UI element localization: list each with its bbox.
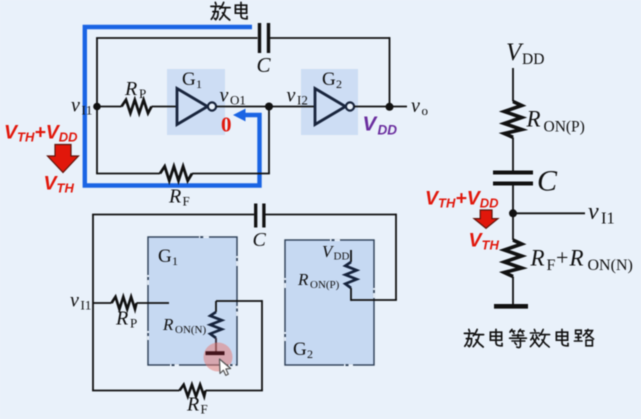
svg-text:v: v bbox=[411, 95, 420, 117]
inverter G2 bubble bbox=[346, 102, 354, 110]
inverter G1 bubble bbox=[208, 102, 216, 110]
node v_I1 right dot bbox=[509, 209, 517, 217]
capacitor C (bottom) bbox=[254, 204, 257, 228]
svg-text:C: C bbox=[257, 53, 272, 77]
wire v_I1 to RP bbox=[97, 106, 122, 108]
wire to ground right bbox=[512, 277, 514, 305]
svg-text:R: R bbox=[186, 394, 199, 416]
red arrow right bbox=[474, 210, 498, 228]
svg-text:+: + bbox=[556, 245, 568, 270]
wire G2 output to v_o bbox=[354, 106, 407, 108]
wire v_O1 to G2 input bbox=[216, 106, 315, 108]
svg-text:2: 2 bbox=[307, 347, 313, 361]
wire V_DD down bbox=[512, 68, 514, 102]
svg-text:ON(P): ON(P) bbox=[544, 119, 585, 136]
svg-text:C: C bbox=[537, 165, 558, 198]
resistor RP (bottom) bbox=[112, 297, 137, 309]
wire RP into G1 box bbox=[137, 302, 170, 304]
selection dash marks G1 box bbox=[147, 236, 238, 366]
svg-text:R: R bbox=[115, 308, 128, 330]
resistor R_F+R_ON(N) right bbox=[504, 240, 521, 277]
svg-text:v: v bbox=[287, 85, 296, 107]
wire right down to RF (bottom) bbox=[261, 300, 263, 390]
resistor RP bbox=[122, 100, 152, 113]
svg-text:v: v bbox=[70, 290, 79, 312]
wire R_ON(N) stub bbox=[215, 301, 217, 312]
node v_o dot bbox=[386, 103, 394, 111]
mouse cursor bbox=[220, 359, 231, 375]
wire RF right (bottom) bbox=[206, 390, 263, 392]
wire RF left (bottom) bbox=[92, 390, 179, 392]
svg-text:P: P bbox=[130, 316, 137, 331]
wire to ground bbox=[215, 338, 217, 352]
svg-text:DD: DD bbox=[378, 123, 398, 138]
node v_I1 dot bbox=[93, 103, 101, 111]
wire V_DD stub bbox=[350, 250, 352, 262]
wire capacitor to node bbox=[512, 186, 514, 241]
svg-text:R: R bbox=[297, 270, 309, 289]
svg-text:R: R bbox=[124, 78, 137, 100]
svg-text:G: G bbox=[293, 339, 307, 360]
svg-text:F: F bbox=[547, 257, 556, 274]
wire RP to G1 bbox=[152, 106, 178, 108]
svg-text:1: 1 bbox=[196, 77, 202, 91]
wire R_ON(N) top horizontal bbox=[216, 300, 262, 302]
svg-text:F: F bbox=[183, 194, 190, 209]
capacitor C (top) bbox=[258, 23, 261, 53]
resistor R_ON(P) bottom box bbox=[345, 262, 356, 288]
resistor R_ON(N) bbox=[210, 312, 222, 338]
svg-text:1: 1 bbox=[172, 254, 178, 268]
svg-text:ON(P): ON(P) bbox=[310, 279, 340, 291]
blue discharge current path bbox=[85, 27, 260, 186]
svg-text:R: R bbox=[530, 246, 545, 271]
inverter G2 triangle bbox=[315, 89, 346, 125]
svg-text:2: 2 bbox=[336, 77, 342, 91]
blue arrowhead bbox=[233, 109, 246, 122]
svg-text:R: R bbox=[569, 246, 584, 271]
svg-text:P: P bbox=[139, 86, 146, 101]
svg-text:C: C bbox=[253, 229, 267, 251]
svg-text:I2: I2 bbox=[297, 93, 308, 108]
svg-text:V: V bbox=[363, 113, 379, 136]
svg-text:R: R bbox=[168, 186, 181, 208]
wire v_O1 down to RF bbox=[268, 107, 270, 174]
svg-text:G: G bbox=[322, 69, 336, 90]
wire v_I1 vertical bbox=[96, 38, 98, 174]
svg-text:I1: I1 bbox=[82, 103, 93, 118]
resistor RF (bottom) bbox=[180, 385, 206, 397]
wire down to v_o node bbox=[389, 37, 391, 107]
svg-text:ON(N): ON(N) bbox=[175, 324, 206, 336]
red arrow left bbox=[48, 145, 79, 173]
wire capacitor to right vertical bbox=[266, 214, 397, 216]
svg-text:I1: I1 bbox=[601, 209, 615, 228]
resistor R_ON(P) right bbox=[504, 102, 521, 138]
svg-text:v: v bbox=[220, 85, 229, 107]
svg-text:R: R bbox=[162, 315, 174, 334]
gate G1 box (bottom) bbox=[148, 237, 237, 365]
wire R_ON(P) to node bbox=[350, 288, 352, 301]
svg-text:o: o bbox=[422, 103, 429, 118]
label fangdian (discharge) bbox=[211, 2, 230, 20]
svg-text:ON(N): ON(N) bbox=[588, 257, 633, 274]
label fangdian dengxiao dianlu (discharge equivalent circuit) bbox=[464, 329, 483, 347]
svg-text:0: 0 bbox=[221, 113, 232, 137]
svg-text:DD: DD bbox=[334, 251, 350, 263]
svg-text:O1: O1 bbox=[230, 93, 246, 108]
svg-text:v: v bbox=[71, 95, 80, 117]
svg-text:DD: DD bbox=[522, 51, 544, 68]
gate G2 box (top) bbox=[301, 69, 358, 135]
wire node to v_I1 label bbox=[513, 212, 585, 214]
node v_O1 dot bbox=[265, 103, 273, 111]
resistor RF bbox=[160, 166, 192, 180]
svg-text:v: v bbox=[588, 199, 599, 225]
wire right vertical down bbox=[395, 214, 397, 300]
wire to capacitor bbox=[512, 137, 514, 170]
ground right bbox=[494, 304, 528, 309]
pink cursor highlight bbox=[204, 343, 233, 372]
wire capacitor to v_o branch bbox=[270, 37, 390, 39]
ground (bottom circuit) bbox=[206, 351, 225, 355]
svg-text:G: G bbox=[182, 69, 196, 90]
wire RF left segment bbox=[96, 173, 160, 175]
svg-text:G: G bbox=[158, 246, 172, 267]
svg-text:I1: I1 bbox=[81, 298, 92, 313]
wire to R_ON(P) bottom bbox=[351, 299, 397, 301]
gate G2 box (bottom) bbox=[285, 240, 374, 365]
wire RF right segment bbox=[192, 173, 270, 175]
svg-text:F: F bbox=[201, 402, 208, 417]
svg-text:R: R bbox=[526, 107, 541, 132]
inverter G1 triangle bbox=[177, 89, 208, 125]
capacitor C right bbox=[493, 171, 533, 175]
wire v_I1 to RP (bottom) bbox=[93, 302, 112, 304]
wire top to capacitor (bottom) bbox=[92, 214, 254, 216]
selection dash marks G2 box bbox=[284, 239, 375, 366]
gate G1 box (top) bbox=[167, 69, 225, 135]
wire left vertical (bottom v_I1) bbox=[92, 215, 94, 391]
wire top to capacitor C bbox=[96, 37, 257, 39]
